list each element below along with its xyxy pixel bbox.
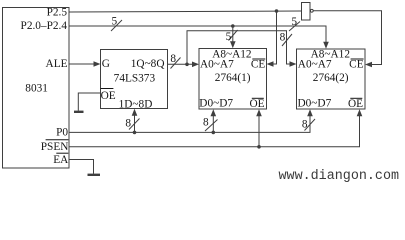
svg-text:5: 5 (226, 31, 232, 43)
svg-text:OE: OE (348, 98, 363, 110)
svg-text:8: 8 (170, 53, 176, 65)
svg-text:P2.0–P2.4: P2.0–P2.4 (21, 20, 68, 32)
svg-text:2764(2): 2764(2) (313, 72, 349, 84)
svg-text:1D~8D: 1D~8D (119, 99, 153, 111)
svg-text:74LS373: 74LS373 (114, 73, 156, 85)
svg-text:1Q~8Q: 1Q~8Q (131, 58, 165, 70)
svg-text:G: G (102, 58, 110, 70)
svg-text:5: 5 (291, 16, 297, 28)
svg-text:CE: CE (349, 59, 364, 71)
svg-text:8: 8 (280, 32, 286, 44)
svg-text:5: 5 (112, 15, 118, 27)
svg-text:www.diangon.com: www.diangon.com (279, 169, 400, 184)
svg-text:8: 8 (125, 117, 131, 129)
svg-text:P2.5: P2.5 (47, 6, 68, 18)
svg-text:PSEN: PSEN (41, 141, 69, 153)
svg-text:2764(1): 2764(1) (215, 72, 251, 84)
svg-text:8031: 8031 (25, 82, 48, 94)
svg-text:OE: OE (249, 98, 264, 110)
svg-text:OE: OE (101, 90, 116, 102)
svg-text:A0~A7: A0~A7 (298, 59, 332, 71)
svg-text:ALE: ALE (46, 58, 68, 70)
svg-text:8: 8 (302, 119, 308, 131)
svg-text:D0~D7: D0~D7 (199, 98, 233, 110)
svg-text:8: 8 (203, 116, 209, 128)
svg-text:CE: CE (251, 59, 266, 71)
svg-text:EA: EA (53, 154, 69, 166)
svg-text:P0: P0 (56, 127, 68, 139)
svg-text:D0~D7: D0~D7 (298, 98, 332, 110)
svg-text:A0~A7: A0~A7 (200, 59, 234, 71)
